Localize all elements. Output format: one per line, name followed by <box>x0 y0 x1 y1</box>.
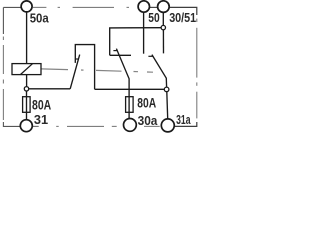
fuse F1 80A <box>23 97 31 113</box>
border bottom-left corner solid to terminal 31 <box>3 122 20 126</box>
svg-text:31: 31 <box>34 112 48 127</box>
wire from terminal 50a down to coil <box>26 12 28 64</box>
border left: solid from top-left corner <box>2 7 4 34</box>
wire junction down through fuse to terminal 31 <box>26 91 28 120</box>
border left dot <box>2 80 4 84</box>
svg-text:50a: 50a <box>30 11 50 26</box>
contact 2 fixed bar <box>110 54 131 56</box>
svg-text:30/51: 30/51 <box>169 10 196 25</box>
mechanical linkage dash to contact 3 blade <box>147 71 153 73</box>
mechanical linkage dot <box>134 71 139 73</box>
svg-text:80A: 80A <box>137 94 156 110</box>
border bottom solid stub right of terminal 31 <box>33 125 39 127</box>
wire coil bottom to junction <box>26 75 28 87</box>
junction J3 <box>164 87 169 92</box>
contact 3 moving blade <box>152 55 167 88</box>
contact 1 blade tick <box>75 58 79 60</box>
border bottom solid from terminal 31a to bottom-right corner <box>175 122 197 126</box>
svg-text:50: 50 <box>148 10 159 25</box>
wire rail from junction J2 to contact 1 pivot <box>29 88 70 90</box>
border right dot <box>196 82 198 85</box>
contact 3 blade tick <box>148 55 152 57</box>
border left dash <box>2 45 4 74</box>
svg-text:80A: 80A <box>32 97 51 113</box>
wire rail C from junction J1 to contact 2 fixed bar <box>110 28 161 56</box>
relay coil <box>12 64 41 75</box>
border top dot <box>58 6 60 8</box>
wire from terminal 30/51 down to junction J1 <box>162 12 164 25</box>
border top solid between terminals 50 and 30/51 <box>150 6 158 8</box>
mechanical linkage dash <box>96 69 122 72</box>
wire from junction J3 down to terminal 31a <box>166 92 169 119</box>
border bottom dot <box>112 125 117 127</box>
mechanical linkage dash from coil armature <box>41 68 68 71</box>
junction J2 on coil return <box>24 87 28 91</box>
junction J1 below terminal 30/51 <box>161 25 165 29</box>
contact 1 fixed terminal staple <box>75 45 94 90</box>
border top: solid corner segment to terminal 50a <box>3 6 21 8</box>
svg-text:31a: 31a <box>176 112 191 127</box>
fuse F2 80A <box>126 97 134 113</box>
terminal 30/51 <box>158 1 170 13</box>
terminal 31a <box>161 119 174 132</box>
contact 1 moving blade <box>70 55 80 89</box>
wire rail B from staple to junction J3 <box>95 88 165 90</box>
border bottom dash between terminals 30a and 31a <box>144 125 160 127</box>
terminal 30a <box>123 119 136 132</box>
border right dot <box>196 19 198 22</box>
wire below junction J1 to contact 3 fixed end <box>162 30 164 54</box>
contact 2 blade tick <box>113 50 117 52</box>
terminal 50a <box>21 1 32 12</box>
border top long dash <box>73 6 114 8</box>
svg-text:30a: 30a <box>138 113 158 128</box>
border left dash <box>2 89 4 120</box>
border right long dash <box>196 28 198 78</box>
mechanical linkage dot <box>81 69 84 71</box>
border top dash <box>33 6 47 8</box>
contact 2 moving blade down to fuse F2 and terminal 30a <box>116 49 129 119</box>
wire from terminal 50 down to contact 3 <box>143 12 145 54</box>
border right dash <box>196 92 198 119</box>
border left dot <box>2 37 4 41</box>
border bottom dash <box>67 125 104 127</box>
border top solid from terminal 30/51 to top-right corner <box>169 7 197 15</box>
terminal 50 <box>138 1 149 12</box>
border bottom dot <box>56 125 59 127</box>
terminal 31 <box>20 120 32 132</box>
border top dot <box>127 6 130 8</box>
